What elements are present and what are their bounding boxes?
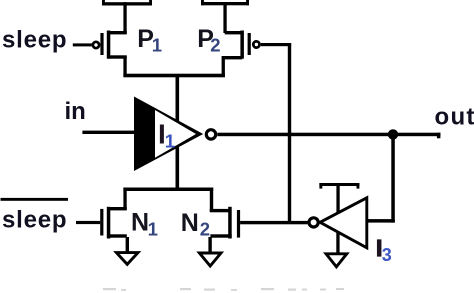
svg-text:1: 1 — [165, 131, 175, 152]
svg-text:3: 3 — [382, 245, 392, 265]
svg-text:sleep: sleep — [2, 207, 67, 234]
svg-text:1: 1 — [148, 219, 158, 240]
svg-text:2: 2 — [210, 35, 220, 56]
svg-text:N: N — [181, 209, 199, 237]
svg-text:in: in — [65, 98, 86, 125]
svg-text:out: out — [435, 103, 474, 130]
svg-text:N: N — [131, 208, 149, 236]
svg-text:2: 2 — [200, 219, 210, 240]
svg-text:sleep: sleep — [2, 27, 67, 54]
svg-text:1: 1 — [152, 35, 162, 56]
